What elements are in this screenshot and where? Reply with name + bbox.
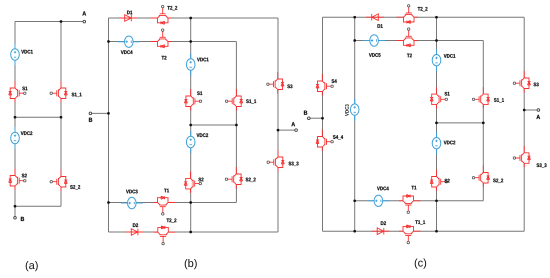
label VDC2 (a) [21,131,33,135]
mosfet S2_2 (c) [472,166,489,188]
label S3 (c) [534,83,539,87]
junction center row2 (c) [435,39,438,42]
node B terminal (b) [89,112,92,115]
label T2 (c) [407,54,412,58]
label S1_1 (a) [72,93,82,97]
wire far right column (c) [523,17,525,231]
junction VDC3-col row3 (c) [353,199,356,202]
label VDC2 (c) [444,141,456,145]
mosfet S2 (b) [184,171,201,193]
node B label (a) [21,217,24,221]
voltage source VDC3 (b) [121,197,143,208]
wire row2 rail (b) [109,41,237,43]
mosfet S2_2 (a) [50,170,67,192]
label S2 (b) [198,178,203,182]
wire row1 rail (b) [109,17,279,19]
mosfet S1_1 (b) [225,89,242,111]
label VDC3 (b) [126,190,138,194]
caption (a) [26,261,38,271]
mosfet S1 (b) [184,89,201,111]
junction center row1 (b) [189,17,192,20]
junction left row2 (b) [107,40,110,43]
mosfet S1 (c) [430,87,447,109]
mosfet T1_1 (c) [399,225,421,244]
junction right middle (b) [235,124,238,127]
wire row2 rail (c) [355,40,484,42]
wire row3 rail (b) [109,202,237,204]
wire left column (b) [108,18,110,232]
wire row1 rail (c) [323,16,525,18]
mosfet T2 (c) [397,28,419,47]
caption (b) [185,259,197,269]
mosfet S3_3 (b) [267,150,284,172]
caption (c) [415,259,426,269]
label VDC3 rotated (c) [345,104,349,116]
wire row4 rail (c) [323,230,525,232]
mosfet T2_2 bottom (b) [154,226,176,245]
mosfet S4_4 (c) [316,130,333,152]
voltage source VDC4 (c) [367,195,389,206]
wire bottom rail (a) [15,205,61,207]
node A label (c) [536,115,540,119]
node A label (b) [291,122,295,126]
junction VDC3-col row2 (c) [353,39,356,42]
junction right-middle (a) [60,116,63,119]
node A terminal (a) [83,20,86,23]
label S1_1 (b) [246,99,256,103]
label VDC2 (b) [197,133,209,137]
node A terminal (c) [537,109,540,112]
junction center row3 (c) [435,199,438,202]
label VDC1 (c) [444,54,456,58]
mosfet S1_1 (c) [472,87,489,109]
label T2 (b) [162,56,167,60]
mosfet S1 (a) [9,81,26,103]
mosfet T1 (b) [154,196,176,215]
label S3_3 (c) [537,163,547,167]
voltage source VDC1 (c) [432,49,441,71]
label S2_2 (b) [246,178,256,182]
mosfet S2 (a) [9,169,26,191]
label S1_1 (c) [494,98,504,102]
label VDC1 (b) [197,58,209,62]
label S4 (c) [332,79,337,83]
wire VDC3 column (c) [354,17,356,231]
node B terminal (a) [14,217,17,220]
node B terminal (c) [308,117,311,120]
mosfet S2_2 (b) [225,167,242,189]
junction left row3 (b) [107,201,110,204]
junction center row1 (c) [435,16,438,19]
label D2 (c) [381,221,386,225]
diode D1 (c) [366,14,384,21]
label S4_4 (c) [333,135,343,139]
wire middle link (c) [437,122,484,124]
node A label (a) [82,11,86,15]
label S2_2 (a) [70,185,80,189]
wire S1_1 column (b) [235,42,237,203]
junction VDC3-col row4 (c) [353,230,356,233]
mosfet S3 (c) [513,71,530,93]
wire left branch (a) [14,22,16,207]
label D1 (b) [127,11,132,15]
label VDC4 (c) [377,187,389,191]
label S1 (a) [22,87,27,91]
label T2_2 bottom (b) [167,218,177,222]
junction far right A (b) [277,129,280,132]
mosfet S3 (b) [267,72,284,94]
label T2_2 top (b) [167,6,177,10]
junction center middle (c) [435,122,438,125]
wire row4 rail (b) [109,231,279,233]
wire terminal B lead (b) [92,112,109,114]
mosfet S2 (c) [430,170,447,192]
wire terminal A lead (b) [278,129,295,131]
wire top rail (a) [15,21,83,23]
wire S1_1 column (c) [482,41,484,201]
label T2_2 (c) [418,7,428,11]
wire far right column (b) [277,18,279,232]
junction VDC3-col row1 (c) [353,16,356,19]
label S2_2 (c) [493,179,503,183]
node A terminal (b) [295,129,298,132]
label T1 (c) [411,186,416,190]
node B label (c) [304,111,307,115]
mosfet S4 (c) [316,74,333,96]
label D1 (c) [378,24,383,28]
voltage source VDC3 (c) [350,99,359,121]
junction right middle (c) [482,122,485,125]
wire stub to terminal B (a) [14,206,16,216]
label S3 (b) [287,84,292,88]
mosfet T2_2 top (b) [151,5,173,24]
junction left B (c) [321,117,324,120]
junction left B (b) [107,112,110,115]
diode D1 (b) [119,15,137,22]
mosfet T1 (c) [399,195,421,214]
label S2 (a) [22,174,27,178]
wire middle link (a) [15,116,61,118]
wire center column (b) [190,18,192,232]
junction center middle (b) [189,124,192,127]
junction center row3 (b) [189,201,192,204]
voltage source VDC1 (b) [186,54,195,76]
wire terminal A lead (c) [524,109,537,111]
mosfet S1_1 (a) [50,81,67,103]
wire left column (c) [322,17,324,231]
wire right branch (a) [60,22,62,207]
label S3_3 (b) [289,162,299,166]
voltage source VDC5 (c) [363,35,385,46]
label T1 (b) [164,189,169,193]
junction center row4 (b) [189,231,192,234]
wire center column (c) [436,17,438,231]
voltage source VDC2 (a) [11,127,20,149]
wire middle link (b) [191,124,237,126]
label S1 (c) [445,92,450,96]
mosfet T2_2 (c) [397,5,419,24]
mosfet T2 (b) [151,29,173,48]
voltage source VDC2 (b) [186,131,195,153]
diode D2 (c) [372,228,390,235]
label T1_1 (c) [415,220,425,224]
label VDC5 (c) [369,53,381,57]
label S2 (c) [445,179,450,183]
junction left-middle (a) [14,116,17,119]
label S1 (b) [197,91,202,95]
label VDC1 (a) [21,50,33,54]
wire row3 rail (c) [355,200,484,202]
junction far right A (c) [523,109,526,112]
node B label (b) [89,118,92,122]
voltage source VDC1 (a) [11,44,20,66]
voltage source VDC4 (b) [118,36,140,47]
junction center row2 (b) [189,40,192,43]
junction bottom-left (a) [14,205,17,208]
diode D2 (b) [126,229,144,236]
wire terminal B lead (c) [310,117,322,119]
junction center row4 (c) [435,230,438,233]
mosfet S3_3 (c) [513,146,530,168]
voltage source VDC2 (c) [432,132,441,154]
label D2 (b) [133,223,138,227]
label VDC4 (b) [121,50,133,54]
junction at top of right branch (a) [60,20,63,23]
